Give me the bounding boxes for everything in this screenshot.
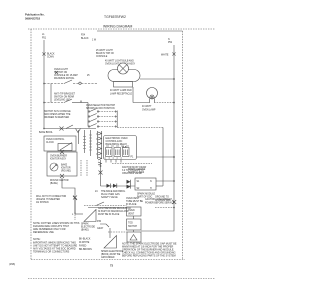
selector switch row 4 [88, 126, 89, 127]
svg-text:VENT: VENT [128, 214, 135, 216]
svg-text:BAKE BROIL RELAY: BAKE BROIL RELAY [106, 143, 128, 146]
left frame border [30, 29, 32, 260]
valve solenoid triangle 1 [107, 184, 111, 188]
wire N trunk [173, 45, 175, 230]
svg-text:40 WATT: 40 WATT [142, 105, 152, 108]
svg-text:SHOWN IN OFF POSITION: SHOWN IN OFF POSITION [86, 108, 115, 110]
wire N trunk corner to box C [141, 230, 174, 231]
electronic oven control box [104, 136, 137, 160]
label ground [155, 197, 171, 203]
electrode triangle 2 [104, 236, 117, 249]
wire valve row [101, 185, 136, 187]
svg-text:CONN: CONN [47, 57, 54, 59]
svg-text:(2/98): (2/98) [9, 264, 15, 266]
label ignitor current [122, 166, 147, 175]
valve solenoid pair stacked [127, 180, 131, 184]
svg-text:DUAL OVEN GAS: DUAL OVEN GAS [101, 193, 120, 196]
svg-text:CAUTION: DISCONNECT: CAUTION: DISCONNECT [145, 198, 172, 201]
wire row link down [50, 84, 52, 103]
label anti-tip [54, 93, 76, 102]
chevron on bake row [76, 129, 81, 133]
svg-text:OVEN: OVEN [128, 210, 135, 212]
svg-text:TOD: TOD [128, 223, 133, 225]
connector wires clock to control [78, 130, 80, 144]
clock box [44, 136, 76, 151]
label will not fit [36, 196, 67, 204]
svg-text:AND OPENS WHEN THE: AND OPENS WHEN THE [44, 113, 71, 116]
svg-text:WILL NOT FIT CONNECTOR: WILL NOT FIT CONNECTOR [36, 196, 67, 198]
right frame border [182, 31, 184, 260]
label spark module top [128, 168, 146, 174]
connector X top of ignitor box [60, 150, 64, 154]
svg-text:P51: P51 [42, 38, 47, 40]
svg-text:(BAKE): (BAKE) [50, 182, 58, 185]
connector X oven light [55, 71, 58, 74]
wire dashed mid bottom [108, 231, 127, 233]
svg-text:SPARK ELECTRODE: SPARK ELECTRODE [101, 250, 124, 253]
right box C [127, 232, 141, 242]
notes paragraph left [33, 222, 80, 234]
switch oven light [64, 80, 72, 84]
connector X on N trunk [172, 52, 175, 55]
svg-text:THE BAKE AND BROIL: THE BAKE AND BROIL [101, 190, 126, 193]
selector switch row 3 [88, 121, 89, 122]
svg-text:GROUNDED: GROUNDED [101, 257, 115, 259]
svg-text:MUST BE IN PLACE: MUST BE IN PLACE [98, 213, 120, 216]
svg-text:SPARK MODULE: SPARK MODULE [137, 193, 156, 196]
wire L1 trunk [43, 40, 45, 129]
svg-text:OVEN LIGHT: OVEN LIGHT [54, 69, 69, 71]
label spark module [137, 193, 156, 199]
svg-text:WIRING DIAGRAM: WIRING DIAGRAM [103, 25, 133, 29]
svg-text:MAXIMUM RATING: MAXIMUM RATING [54, 77, 74, 80]
svg-text:CONSOLE OF 15 AMP: CONSOLE OF 15 AMP [54, 74, 78, 77]
connector X on bake row [60, 127, 64, 131]
svg-text:BEFORE REPLACING PARTS OF THE: BEFORE REPLACING PARTS OF THE SYSTEM [122, 255, 176, 258]
svg-text:POWER BEFORE SERVICE: POWER BEFORE SERVICE [145, 203, 175, 205]
label round ignitor [50, 180, 69, 185]
svg-text:IGNITOR ASSY: IGNITOR ASSY [50, 158, 67, 161]
svg-text:CONTROL EOC: CONTROL EOC [106, 141, 123, 143]
svg-text:REFERENCE USE: REFERENCE USE [33, 231, 54, 234]
header model number [104, 15, 126, 19]
wire lamp row [132, 87, 134, 103]
wires right boxes [133, 216, 135, 219]
svg-text:73: 73 [110, 264, 113, 268]
svg-text:SWITCH IS IN CONSOLE: SWITCH IS IN CONSOLE [44, 111, 71, 113]
connector X valve feed [99, 171, 103, 175]
lamp symbol in oval [118, 63, 129, 74]
connector X bottom of ignitor box [60, 174, 64, 178]
connector X on L1 trunk [42, 52, 45, 55]
terminal block below oval [114, 82, 133, 88]
wire bake row [44, 128, 96, 130]
svg-text:DRAWER IS REMOVED: DRAWER IS REMOVED [44, 116, 70, 119]
svg-text:SAFETY VALVE: SAFETY VALVE [101, 196, 118, 199]
svg-text:IN PLACE: IN PLACE [126, 203, 137, 206]
label bake ignitor [61, 164, 71, 173]
label connector L1 [47, 53, 55, 59]
wire oval to N trunk [140, 78, 174, 80]
selector bus to control [116, 111, 118, 128]
svg-text:IGNITOR: IGNITOR [61, 168, 71, 170]
top bus wire [97, 30, 183, 32]
wire dashed right low 2 [155, 207, 174, 209]
svg-text:LAMP RECEPTACLE: LAMP RECEPTACLE [110, 93, 132, 96]
svg-text:IS PART OF MANIFOLD AND: IS PART OF MANIFOLD AND [98, 210, 129, 213]
svg-text:OVEN BURNER: OVEN BURNER [50, 156, 67, 158]
label wire color P24 [81, 35, 97, 42]
svg-text:OVEN CONTROL: OVEN CONTROL [46, 139, 65, 141]
electrode triangle 1 [84, 210, 96, 222]
svg-text:TUBE MUST BE: TUBE MUST BE [126, 201, 143, 203]
label dual gas valve [101, 190, 126, 199]
svg-text:AS SHOWN: AS SHOWN [36, 201, 49, 204]
svg-text:OVEN SELECTOR SWITCH: OVEN SELECTOR SWITCH [86, 105, 116, 107]
wire right column vertical [162, 128, 164, 187]
node L1 label [42, 34, 47, 40]
selector switch bank feed [87, 103, 89, 127]
oven light assembly oval [108, 70, 140, 82]
header title WIRING DIAGRAM [103, 25, 133, 29]
svg-text:BR-BROWN: BR-BROWN [79, 249, 92, 251]
wire dashed to right column [117, 127, 163, 129]
EOC pin stubs bottom [106, 160, 121, 163]
label 25 watt bulb [96, 49, 115, 58]
label selector switch [86, 105, 116, 110]
selector switch row 1 [88, 111, 89, 112]
svg-text:CLOCK: CLOCK [46, 142, 54, 144]
label interlock switch [44, 111, 71, 119]
svg-text:Publication No.: Publication No. [25, 13, 45, 17]
node N label [168, 39, 173, 44]
right box B [127, 219, 142, 230]
svg-text:BAKE: BAKE [61, 164, 68, 167]
svg-text:SPARK: SPARK [81, 223, 89, 226]
wires small top right boxes [74, 212, 76, 220]
svg-text:ELECTRONIC OVEN: ELECTRONIC OVEN [106, 138, 128, 140]
connector X valve row [73, 196, 77, 200]
spark module box [135, 178, 156, 190]
wire anti-tip row [44, 102, 64, 104]
svg-text:SPARK / SENSE: SPARK / SENSE [128, 168, 146, 171]
svg-text:OVEN VENT: OVEN VENT [126, 198, 140, 200]
bottom frame border [31, 259, 185, 261]
wires spark module to N [156, 180, 174, 182]
svg-text:SWITCH ON REAR: SWITCH ON REAR [54, 96, 75, 99]
svg-text:25 WATT LIGHT: 25 WATT LIGHT [96, 49, 113, 52]
label oven light switch [54, 69, 78, 80]
svg-text:(BAKE): (BAKE) [81, 229, 89, 232]
svg-text:BLACK: BLACK [81, 37, 89, 40]
svg-text:OVEN LAMP: OVEN LAMP [142, 109, 156, 112]
label above box A [126, 198, 143, 206]
wire dashed bottom feed [84, 205, 127, 207]
svg-text:40 WATT LIGHT BULB AND: 40 WATT LIGHT BULB AND [105, 60, 134, 63]
header publication text [25, 13, 45, 21]
small code list [79, 238, 92, 252]
ignitor circle [50, 163, 58, 171]
label caution right [145, 198, 175, 205]
svg-text:ANTI-TIP BRACKET: ANTI-TIP BRACKET [54, 93, 76, 96]
connector X on N trunk low [172, 200, 176, 204]
wire oven light row [44, 83, 64, 85]
svg-text:(BROIL) MUST BE: (BROIL) MUST BE [101, 254, 121, 256]
ignitor assembly box [47, 152, 77, 176]
svg-text:BAKE BROIL: BAKE BROIL [39, 131, 53, 134]
label 40 watt light [105, 60, 136, 66]
svg-text:BLACK: BLACK [47, 53, 55, 56]
wire ignitor down [62, 178, 75, 214]
svg-text:ROUND IGNITOR: ROUND IGNITOR [50, 180, 69, 182]
svg-text:SWITCH: SWITCH [128, 226, 137, 228]
svg-text:UNLESS IT INSERTED: UNLESS IT INSERTED [36, 199, 60, 201]
svg-text:P24: P24 [81, 35, 86, 37]
svg-text:GRAY: GRAY [97, 227, 104, 230]
switch bake [66, 125, 73, 129]
wire dashed EOC bottom right [112, 163, 152, 165]
svg-text:R-RED: R-RED [79, 246, 87, 248]
label pressure [98, 207, 131, 216]
selector switch row 2 [88, 116, 89, 117]
svg-text:P52: P52 [168, 42, 173, 44]
svg-text:WHITE: WHITE [161, 55, 169, 57]
svg-text:SUPPLY LINES: SUPPLY LINES [128, 172, 145, 174]
bottom dotted cut line [28, 278, 215, 280]
label 40 watt lamp below [110, 89, 132, 96]
valve solenoid triangle 2 [113, 184, 117, 188]
oven lamp bulb [147, 88, 158, 99]
wire dashed ignitor right [80, 160, 82, 176]
svg-text:CONSOLE: CONSOLE [96, 56, 108, 58]
svg-text:40 WATT LAMP AND: 40 WATT LAMP AND [110, 89, 132, 92]
label oven lamp [142, 105, 156, 112]
svg-text:ELECTRODE: ELECTRODE [81, 227, 96, 229]
svg-text:P30: P30 [97, 221, 102, 223]
svg-text:5995423718: 5995423718 [25, 17, 40, 21]
svg-text:(ROUND): (ROUND) [61, 171, 71, 173]
svg-text:W-WHITE: W-WHITE [79, 242, 90, 244]
wire valve feed vertical [100, 160, 102, 186]
connector ladder left of EOC [96, 131, 102, 165]
switch anti-tip [64, 99, 72, 103]
notes paragraph right [122, 243, 177, 258]
right box A [127, 207, 142, 216]
wire solid bottom feed [88, 207, 127, 209]
svg-text:TERMINALS OR CONNECTORS: TERMINALS OR CONNECTORS [33, 251, 70, 254]
svg-text:BK-BLACK: BK-BLACK [79, 238, 91, 241]
svg-text:BULB IN TOP OF: BULB IN TOP OF [96, 53, 115, 55]
svg-text:TGF657BFW2: TGF657BFW2 [104, 15, 126, 19]
wire EOC right to N [137, 156, 175, 158]
top dotted cut line [28, 28, 215, 30]
